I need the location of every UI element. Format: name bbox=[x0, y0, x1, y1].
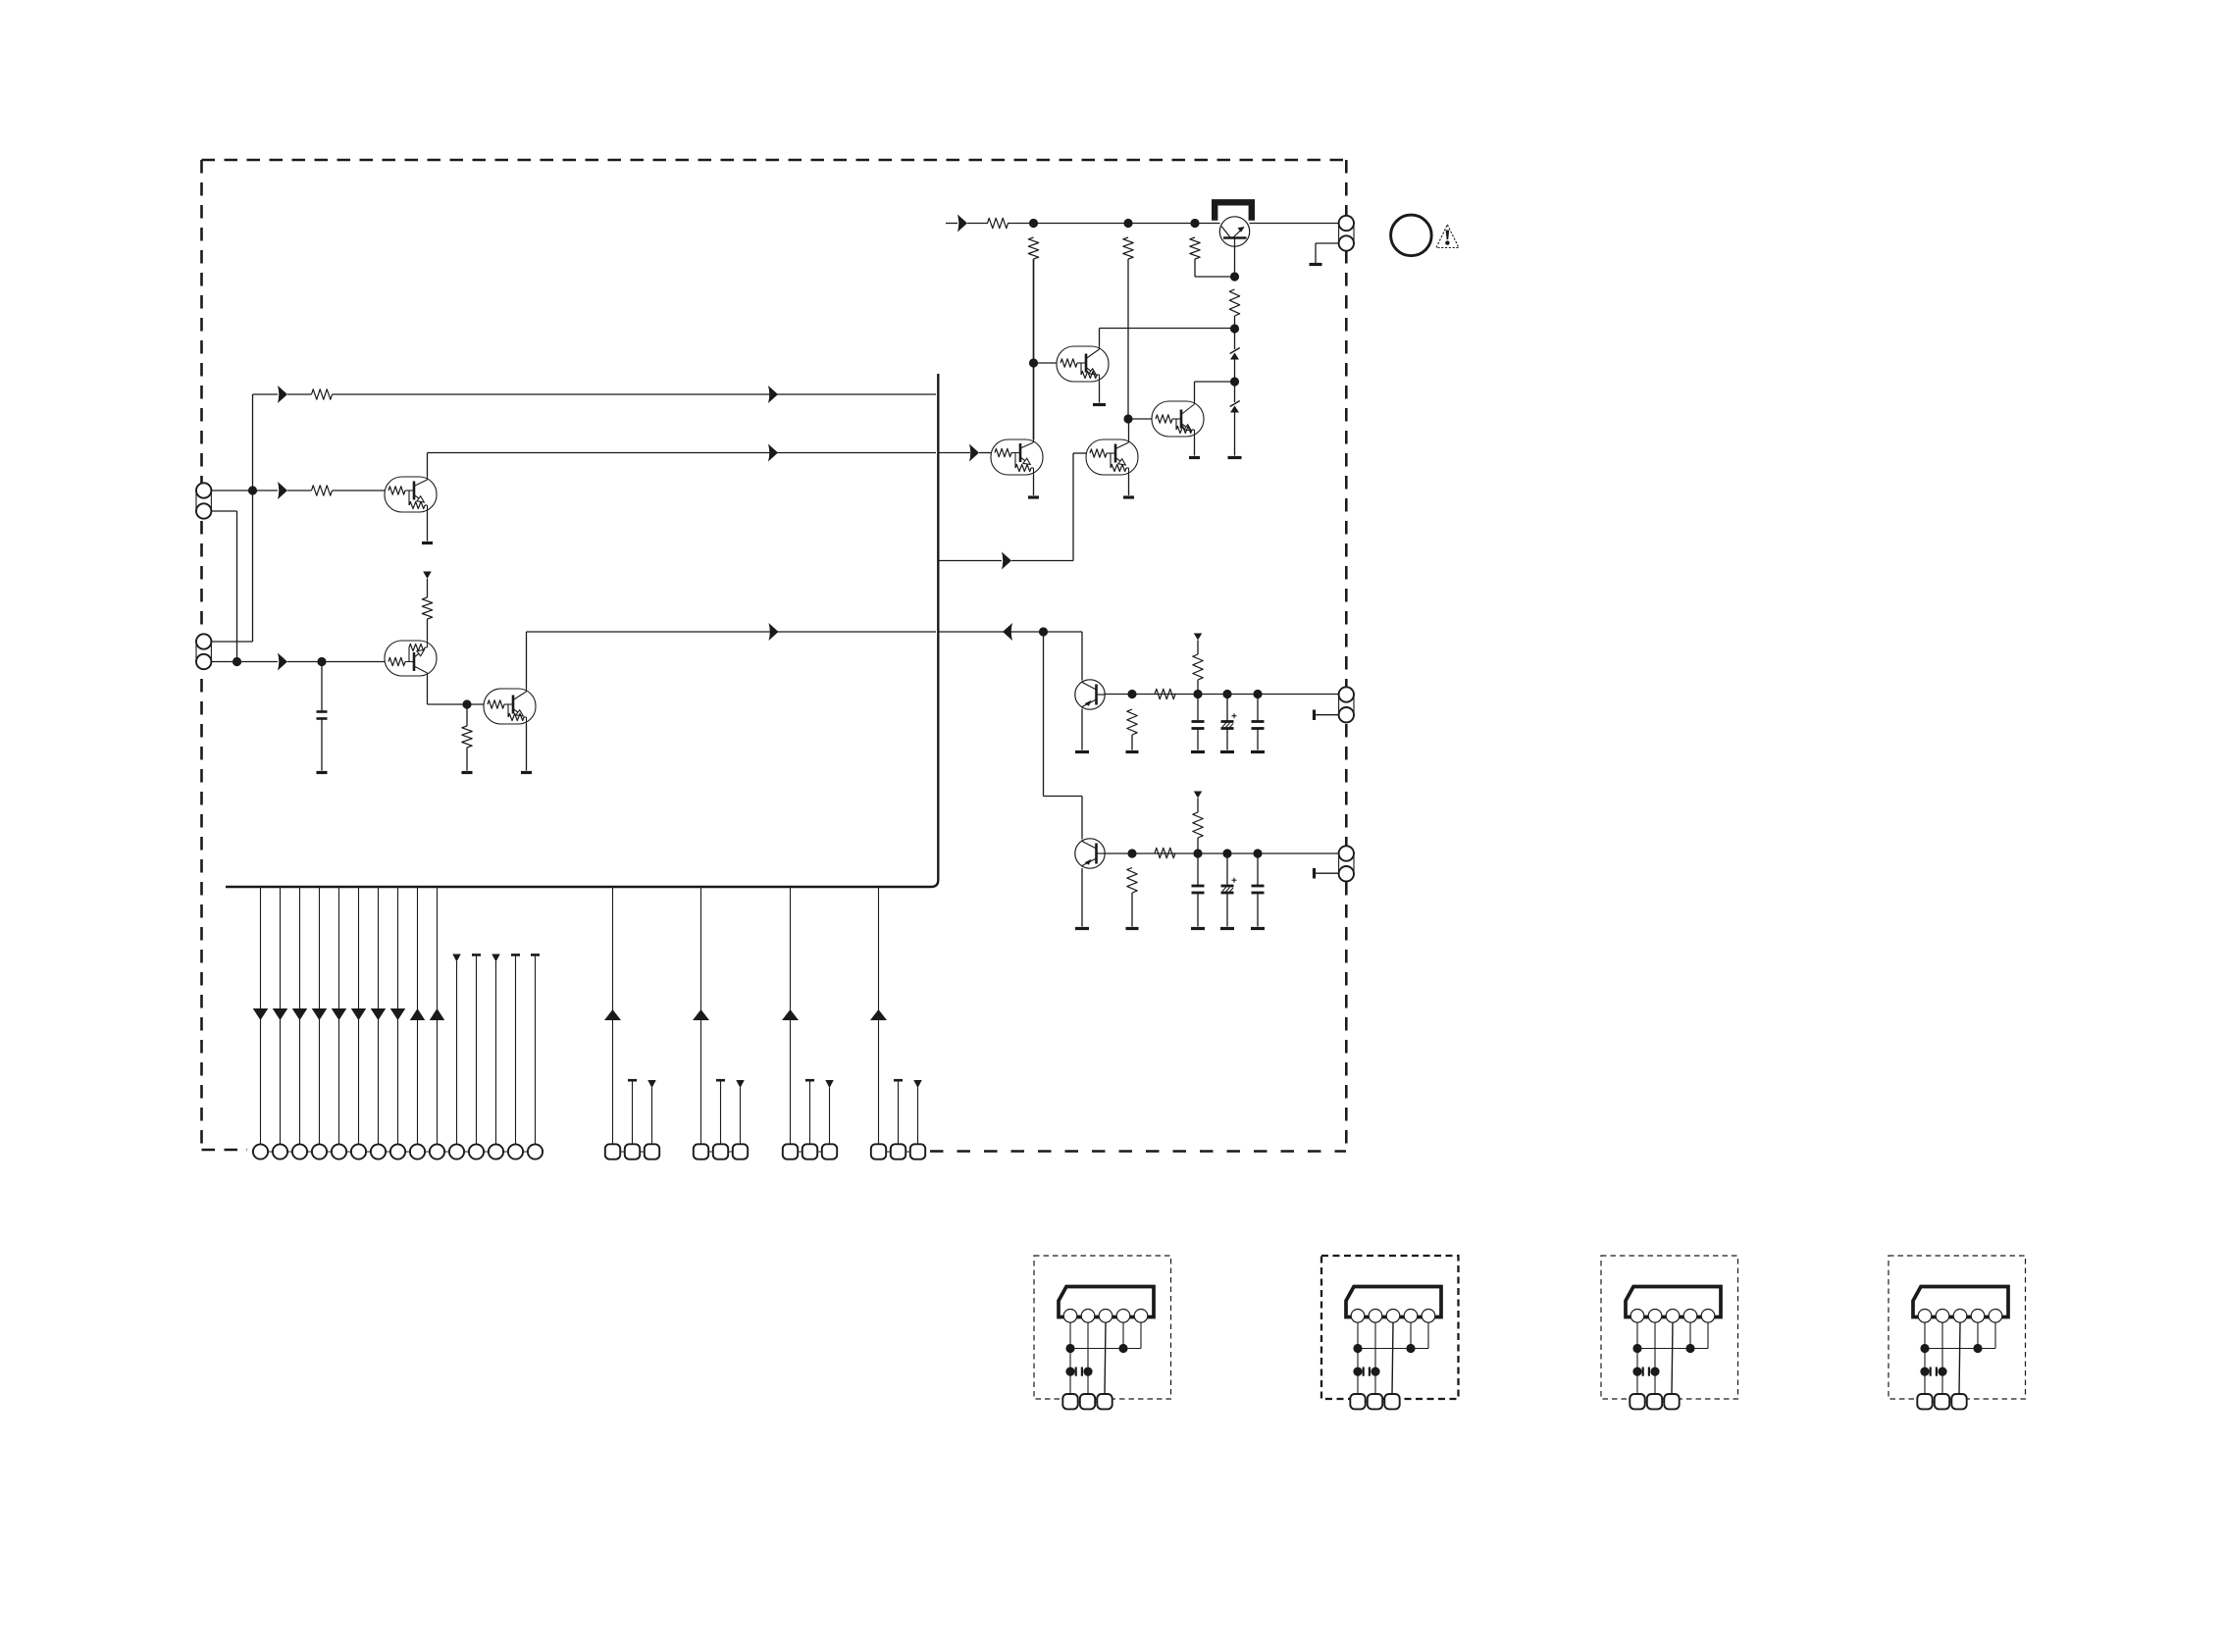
wire CN2 pin2 row bbox=[211, 661, 278, 663]
hybrid IC dashed box (box 3) bbox=[1601, 1256, 1738, 1399]
wire Q7 collector to node K bbox=[1195, 381, 1235, 383]
junction dot node H bbox=[1123, 414, 1132, 423]
connector CN1 input pair left top bbox=[196, 483, 211, 518]
junction dot node J bbox=[1230, 324, 1239, 333]
junction dot CN2 row bbox=[233, 657, 241, 666]
ground Q6 emitter bbox=[1093, 403, 1106, 406]
wire R2 to Q1 base bbox=[333, 490, 386, 491]
junction dot capacitor right (box 4) bbox=[1938, 1368, 1946, 1376]
wire CN1 pin1 to node bbox=[211, 490, 278, 491]
direction arrow up group CN10 bbox=[870, 1009, 887, 1020]
transistor Q4 digital NPN bbox=[991, 439, 1043, 475]
wire row P input stub bbox=[946, 223, 957, 225]
resistor R11 base Q9 bbox=[1155, 689, 1175, 698]
bus vertical trunk line bbox=[226, 374, 938, 887]
capacitor C6 electrolytic bbox=[1221, 878, 1237, 893]
junction dot node N bbox=[1193, 690, 1202, 698]
junction dot node C bbox=[462, 699, 471, 708]
ground zener chain bbox=[1228, 456, 1242, 459]
wire node N to C2 bbox=[1197, 695, 1199, 722]
wire C2 to ground bbox=[1197, 729, 1199, 750]
junction dot row P node D bbox=[1029, 219, 1038, 228]
wire IC pin3 down (box 1) bbox=[1105, 1322, 1106, 1395]
ground C3 bbox=[1220, 750, 1234, 753]
wire stub to CN4 pin2 bbox=[1316, 714, 1339, 716]
junction dot node G bbox=[1029, 358, 1038, 367]
wire C4 to ground bbox=[1257, 729, 1259, 750]
junction dot node B bbox=[317, 657, 326, 666]
wire Q1 emitter down bbox=[427, 512, 429, 542]
junction dot IC pin4 link (box 1) bbox=[1118, 1344, 1127, 1353]
heatsink bracket for Q8 bbox=[1215, 202, 1252, 220]
wire node J to zener D1 bbox=[1234, 329, 1236, 349]
transistor Q3 digital NPN second stage bbox=[484, 689, 536, 724]
signal arrow row A mid bbox=[768, 386, 778, 403]
connector CN7 3-pin group bbox=[605, 1144, 659, 1159]
connector CN8 3-pin group bbox=[694, 1144, 748, 1159]
wire stub to CN5 pin2 bbox=[1316, 872, 1339, 874]
connector CN8 link line bbox=[701, 1151, 741, 1153]
hybrid IC pin circles 1-5 (box 3) bbox=[1630, 1310, 1715, 1323]
wire Q7 collector up bbox=[1194, 382, 1196, 401]
connector CN3 output pair bbox=[1339, 216, 1354, 251]
junction dot IC pin1 link (box 3) bbox=[1632, 1344, 1641, 1353]
wire C1 to ground bbox=[321, 719, 323, 771]
wire node L branch down bbox=[1044, 632, 1083, 840]
capacitor C7 bbox=[1252, 886, 1265, 893]
wire row B to Q4 base bbox=[979, 452, 991, 454]
wire R10 to ground bbox=[1131, 735, 1133, 750]
stub supply arrow group CN7 bbox=[647, 1080, 656, 1145]
wire CN3 pin2 stub bbox=[1316, 243, 1339, 263]
ground Q5 emitter bbox=[1123, 495, 1134, 498]
wire IC pin1 down (box 4) bbox=[1924, 1322, 1926, 1395]
hybrid IC dashed box (box 2) bbox=[1321, 1256, 1459, 1399]
wire CN1 pin2 drop bbox=[236, 511, 238, 662]
connector CN7 link line bbox=[613, 1151, 652, 1153]
connector CN9 3-pin group bbox=[783, 1144, 837, 1159]
transistor Q9 PNP bbox=[1075, 680, 1105, 709]
bus feed wire group CN10 bbox=[878, 888, 880, 1145]
wire vertical node A riser bbox=[252, 394, 254, 642]
signal arrow row D bbox=[769, 623, 779, 641]
wire Q1 collector up to row B bbox=[427, 453, 429, 478]
resistor R13 below node Q bbox=[1127, 868, 1137, 894]
wire C5 to ground bbox=[1197, 893, 1199, 927]
wire row A to bus bbox=[333, 393, 937, 395]
junction dot capacitor left (box 2) bbox=[1353, 1368, 1362, 1376]
warning triangle with exclamation bbox=[1436, 225, 1459, 248]
junction dot node L bbox=[1039, 627, 1048, 636]
wire IC pin4 down (box 3) bbox=[1689, 1322, 1691, 1349]
supply arrow for Q2 bbox=[423, 572, 432, 580]
wire Q4 emitter down bbox=[1033, 475, 1035, 495]
capacitor C1 bbox=[317, 712, 328, 719]
wire IC pin1 down (box 2) bbox=[1357, 1322, 1359, 1395]
wire row B from bus bbox=[940, 452, 971, 454]
signal arrow row C bbox=[1002, 552, 1011, 570]
wire node T to C7 bbox=[1257, 853, 1259, 886]
junction dot IC pin4 link (box 4) bbox=[1973, 1344, 1982, 1353]
resistor R14 base Q10 bbox=[1155, 848, 1175, 857]
stub supply arrow group CN8 bbox=[736, 1080, 745, 1145]
wire row D to bus bbox=[527, 631, 937, 633]
bus feed wire group CN9 bbox=[790, 888, 792, 1145]
wire node K to zener D2 bbox=[1234, 382, 1236, 402]
junction dot T6 node Q bbox=[1127, 849, 1136, 857]
capacitor C5 bbox=[1192, 886, 1205, 893]
wire C6 to ground bbox=[1226, 893, 1228, 927]
wire row P across bbox=[1008, 223, 1220, 225]
hybrid IC pin circles 1-5 (box 2) bbox=[1351, 1310, 1435, 1323]
junction dot row P node E bbox=[1123, 219, 1132, 228]
wire R7 to node H bbox=[1127, 259, 1129, 419]
wire node R to C5 bbox=[1197, 853, 1199, 886]
wire Q3 collector up to row D bbox=[526, 632, 528, 689]
connector CN9 link line bbox=[791, 1151, 830, 1153]
wire IC pin3 down (box 4) bbox=[1959, 1322, 1960, 1395]
junction dot node R bbox=[1193, 849, 1202, 857]
hybrid IC body outline (box 3) bbox=[1626, 1287, 1721, 1317]
connector 3-pin under IC (box 3) bbox=[1630, 1394, 1679, 1409]
direction arrows down lines 1-8 bbox=[253, 1008, 406, 1020]
wire arrow to node B bbox=[287, 661, 385, 663]
signal arrow row D into bus bbox=[1003, 623, 1012, 641]
junction dot node O bbox=[1222, 690, 1231, 698]
wire CN1 pin2 right bbox=[211, 510, 236, 512]
wire node O to C3 bbox=[1226, 695, 1228, 722]
wire Q6 emitter down bbox=[1099, 382, 1101, 403]
junction dot IC pin1 link (box 1) bbox=[1065, 1344, 1074, 1353]
wire Q6 collector to node J bbox=[1100, 328, 1235, 330]
ground C5 bbox=[1191, 927, 1205, 930]
wire R12 to node N bbox=[1197, 680, 1199, 695]
wire node S to C6 bbox=[1226, 853, 1228, 886]
wire node B to capacitor C1 bbox=[321, 662, 323, 712]
wire row C from bus bbox=[938, 560, 1002, 562]
ground C7 bbox=[1251, 927, 1265, 930]
signal arrow row B right bbox=[969, 444, 979, 462]
wire node L to Q9 collector bbox=[1081, 632, 1083, 681]
capacitor C2 bbox=[1192, 722, 1205, 729]
wire Q2 to node C bbox=[428, 703, 468, 705]
resistor R1 row A bbox=[312, 389, 333, 399]
resistor R4 bbox=[462, 726, 472, 748]
junction dot IC pin4 link (box 2) bbox=[1406, 1344, 1415, 1353]
junction dot capacitor right (box 2) bbox=[1371, 1368, 1379, 1376]
wire R4 to ground bbox=[466, 748, 468, 771]
ground C2 bbox=[1191, 750, 1205, 753]
wire Q8 emitter to CN3 bbox=[1250, 223, 1339, 225]
transistor Q2 digital PNP flipped bbox=[385, 641, 437, 676]
wire IC pin5 down and link (box 1) bbox=[1070, 1322, 1141, 1349]
resistor R12 supply T5 bbox=[1193, 654, 1203, 680]
wire Q2 emitter down bbox=[427, 676, 429, 704]
wire node H to Q7 base bbox=[1128, 418, 1152, 420]
connector CN4 output pair bbox=[1339, 687, 1354, 722]
capacitor C4 bbox=[1252, 722, 1265, 729]
hybrid IC body outline (box 2) bbox=[1346, 1287, 1441, 1317]
speaker warning circle bbox=[1391, 215, 1432, 256]
ground stub CN5 bbox=[1313, 868, 1316, 879]
wire D2 to ground bbox=[1234, 413, 1236, 456]
signal arrow row B bbox=[768, 444, 778, 462]
direction arrows up lines 9-10 bbox=[410, 1008, 445, 1020]
capacitor C3 electrolytic bbox=[1221, 713, 1237, 728]
direction arrow up group CN7 bbox=[604, 1009, 621, 1020]
connector 3-pin under IC (box 2) bbox=[1350, 1394, 1399, 1409]
wire D1 to node K bbox=[1234, 360, 1236, 383]
signal arrow row P bbox=[957, 215, 967, 232]
wire Q10 base row bbox=[1106, 852, 1339, 854]
resistor R6 below node D bbox=[1028, 237, 1038, 259]
supply arrow T6 row bbox=[1194, 792, 1203, 799]
wire row B to bus bbox=[428, 452, 937, 454]
junction dot node T bbox=[1253, 849, 1262, 857]
stub tee bar group CN8 bbox=[716, 1080, 725, 1144]
junction dot IC pin1 link (box 4) bbox=[1920, 1344, 1929, 1353]
wire Q3 emitter down bbox=[526, 724, 528, 771]
wire supply to R3 bbox=[427, 579, 429, 597]
wire node C to R4 bbox=[466, 704, 468, 726]
ground stub CN3 bbox=[1310, 263, 1322, 266]
junction dot node P bbox=[1253, 690, 1262, 698]
wire supply to R15 bbox=[1197, 799, 1199, 813]
hybrid IC dashed box (box 1) bbox=[1034, 1256, 1171, 1399]
wire Q10 emitter down bbox=[1081, 868, 1083, 927]
junction dot T5 node M bbox=[1127, 690, 1136, 698]
wire Q9 base row bbox=[1106, 694, 1339, 696]
resistor R8 below node F bbox=[1190, 237, 1200, 259]
resistor R9 zener chain bbox=[1229, 289, 1239, 316]
ground C6 bbox=[1220, 927, 1234, 930]
wire Q5 collector to node H bbox=[1128, 419, 1130, 439]
connector CN6 15-pin row bbox=[253, 1144, 543, 1159]
capacitor inside IC box (box 2) bbox=[1364, 1368, 1370, 1376]
wire IC pin1 down (box 3) bbox=[1636, 1322, 1638, 1395]
ground Q9 emitter bbox=[1075, 750, 1089, 753]
wire IC pin1 down (box 1) bbox=[1069, 1322, 1071, 1395]
capacitor inside IC box (box 4) bbox=[1931, 1368, 1937, 1376]
wire row A start bbox=[253, 393, 279, 395]
wire Q4 collector to node G bbox=[1033, 363, 1035, 439]
connector 3-pin under IC (box 1) bbox=[1062, 1394, 1112, 1409]
wire node P to C4 bbox=[1257, 695, 1259, 722]
junction dot node I bbox=[1230, 272, 1239, 281]
zener diode D1 bbox=[1230, 348, 1240, 360]
connector CN5 output pair bbox=[1339, 846, 1354, 881]
ground C1 bbox=[317, 771, 328, 774]
signal arrow CN2 row bbox=[278, 653, 287, 671]
signal arrow row A bbox=[278, 386, 287, 403]
junction dot capacitor left (box 3) bbox=[1632, 1368, 1641, 1376]
wire Q5 emitter down bbox=[1128, 475, 1130, 495]
junction dot capacitor left (box 4) bbox=[1920, 1368, 1929, 1376]
wire supply to R12 bbox=[1197, 641, 1199, 655]
ground R10 bbox=[1126, 750, 1139, 753]
wire IC pin3 down (box 2) bbox=[1392, 1322, 1393, 1395]
hybrid IC body outline (box 1) bbox=[1059, 1287, 1154, 1317]
transistor Q8 power PNP bbox=[1219, 217, 1249, 246]
wire R13 to ground bbox=[1131, 893, 1133, 927]
signal arrow CN1 row bbox=[278, 482, 287, 499]
wire IC pin5 down and link (box 2) bbox=[1358, 1322, 1428, 1349]
transistor Q5 digital NPN bbox=[1086, 439, 1138, 475]
wire IC pin2 down (box 1) bbox=[1087, 1322, 1089, 1395]
wire IC pin5 down and link (box 4) bbox=[1925, 1322, 1995, 1349]
wire IC pin2 down (box 2) bbox=[1374, 1322, 1376, 1395]
wire C3 to ground bbox=[1226, 729, 1228, 750]
direction arrow up group CN9 bbox=[782, 1009, 799, 1020]
junction dot node K bbox=[1230, 377, 1239, 386]
bus feed wire group CN8 bbox=[700, 888, 702, 1145]
ground Q10 emitter bbox=[1075, 927, 1089, 930]
junction dot node A bbox=[248, 486, 257, 494]
ground Q7 emitter bbox=[1189, 456, 1200, 459]
wire IC pin4 down (box 2) bbox=[1410, 1322, 1412, 1349]
stub wire 11 with supply arrow bbox=[452, 955, 461, 1145]
junction dot IC pin1 link (box 2) bbox=[1353, 1344, 1362, 1353]
junction dot IC pin4 link (box 3) bbox=[1685, 1344, 1694, 1353]
bus output wires group 1-10 bbox=[261, 888, 438, 1145]
stub wire 12 with tee bar bbox=[472, 955, 481, 1144]
connector CN2 input pair left bottom bbox=[196, 634, 211, 669]
ground R13 bbox=[1126, 927, 1139, 930]
wire row A to resistor bbox=[287, 393, 312, 395]
stub tee bar group CN7 bbox=[628, 1080, 637, 1144]
ground Q3 emitter bbox=[521, 771, 532, 774]
connector CN10 link line bbox=[879, 1151, 918, 1153]
wire IC pin3 down (box 3) bbox=[1672, 1322, 1673, 1395]
wire Q7 emitter down bbox=[1194, 437, 1196, 456]
wire row P arrow to resistor bbox=[967, 223, 988, 225]
hybrid IC body outline (box 4) bbox=[1913, 1287, 2008, 1317]
ground stub CN4 bbox=[1313, 710, 1316, 721]
wire CN1 row to resistor bbox=[287, 490, 312, 491]
junction dot capacitor left (box 1) bbox=[1065, 1368, 1074, 1376]
resistor R10 below node M bbox=[1127, 709, 1137, 735]
wire row C jog to Q5 base bbox=[1011, 453, 1086, 561]
junction dot capacitor right (box 1) bbox=[1083, 1368, 1092, 1376]
wire R9 to node J bbox=[1234, 316, 1236, 329]
stub wire 14 with tee bar bbox=[511, 955, 520, 1144]
transistor Q1 digital NPN bbox=[385, 477, 437, 512]
wire IC pin5 down and link (box 3) bbox=[1637, 1322, 1708, 1349]
capacitor inside IC box (box 3) bbox=[1643, 1368, 1649, 1376]
wire IC pin2 down (box 3) bbox=[1654, 1322, 1656, 1395]
hybrid IC pin circles 1-5 (box 1) bbox=[1063, 1310, 1148, 1323]
wire CN2 pin1 to riser bbox=[211, 641, 252, 643]
wire Q6 collector up bbox=[1099, 329, 1101, 347]
wire Q8 collector to node I bbox=[1234, 246, 1236, 277]
bus feed wire group CN7 bbox=[612, 888, 614, 1145]
ground C4 bbox=[1251, 750, 1265, 753]
wire node C to Q3 base bbox=[467, 703, 484, 705]
capacitor inside IC box (box 1) bbox=[1076, 1368, 1082, 1376]
supply arrow T5 row bbox=[1194, 634, 1203, 641]
ground Q1 emitter bbox=[422, 542, 433, 544]
ground Q4 emitter bbox=[1028, 495, 1039, 498]
transistor Q6 digital NPN bbox=[1057, 346, 1109, 382]
connector 3-pin under IC (box 4) bbox=[1917, 1394, 1966, 1409]
stub supply arrow group CN10 bbox=[913, 1080, 922, 1145]
wire Q9 emitter down bbox=[1081, 709, 1083, 750]
resistor R2 CN1 row bbox=[312, 486, 333, 495]
hybrid IC pin circles 1-5 (box 4) bbox=[1918, 1310, 2002, 1323]
resistor R5 row P bbox=[988, 218, 1009, 228]
wire IC pin4 down (box 1) bbox=[1122, 1322, 1124, 1349]
wire R8 down and right to node I bbox=[1195, 259, 1235, 277]
resistor R7 below node E bbox=[1123, 237, 1133, 259]
wire row D right segment bbox=[938, 631, 1082, 633]
direction arrow up group CN8 bbox=[693, 1009, 709, 1020]
wire C7 to ground bbox=[1257, 893, 1259, 927]
connector CN6 link line bbox=[261, 1151, 536, 1153]
wire node G to Q6 base bbox=[1034, 362, 1058, 364]
junction dot capacitor right (box 3) bbox=[1650, 1368, 1659, 1376]
connector CN10 3-pin group bbox=[871, 1144, 925, 1159]
main amplifier block dashed enclosure border bbox=[202, 160, 1347, 1152]
stub tee bar group CN10 bbox=[894, 1080, 903, 1144]
stub wire 15 with tee bar bbox=[531, 955, 540, 1144]
zener diode D2 bbox=[1230, 401, 1240, 413]
ground R4 bbox=[462, 771, 473, 774]
stub wire 13 with supply arrow bbox=[492, 955, 500, 1145]
wire R15 to node R bbox=[1197, 838, 1199, 853]
wire R6 to node G bbox=[1033, 259, 1035, 363]
transistor Q7 digital NPN bbox=[1152, 401, 1204, 437]
wire IC pin4 down (box 4) bbox=[1977, 1322, 1979, 1349]
wire IC pin2 down (box 4) bbox=[1941, 1322, 1943, 1395]
hybrid IC dashed box (box 4) bbox=[1889, 1256, 2026, 1399]
stub tee bar group CN9 bbox=[805, 1080, 814, 1144]
resistor R3 Q2 collector bbox=[422, 597, 432, 619]
junction dot node S bbox=[1222, 849, 1231, 857]
resistor R15 supply T6 bbox=[1193, 812, 1203, 838]
junction dot row P node F bbox=[1190, 219, 1199, 228]
wire R3 to Q2 bbox=[427, 619, 429, 641]
stub supply arrow group CN9 bbox=[825, 1080, 834, 1145]
transistor Q10 PNP bbox=[1075, 839, 1105, 868]
